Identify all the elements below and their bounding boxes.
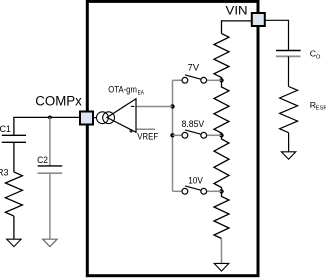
divider resistor 4: [214, 191, 229, 238]
IC boundary: [87, 1, 258, 275]
wire VREF stub: [137, 128, 156, 130]
svg-text:ESR: ESR: [316, 106, 326, 112]
wire switch 7V to tap: [207, 79, 222, 81]
pin VIN: [252, 13, 265, 26]
op-amp plus sign: [129, 130, 133, 132]
wire bus to switch 8.85V: [173, 134, 183, 136]
wire bus to switch 7V: [173, 79, 183, 81]
node tap 7V: [219, 78, 223, 82]
svg-text:8.85V: 8.85V: [182, 119, 205, 129]
svg-text:O: O: [316, 54, 321, 60]
wire inverting input to bus: [137, 106, 173, 108]
ground divider: [214, 263, 229, 271]
divider resistor 1: [214, 34, 229, 81]
wire CO to RESR: [288, 56, 290, 86]
node bus to switch 8.85V: [170, 133, 174, 137]
ground RESR: [281, 152, 295, 159]
capacitor CO: [276, 50, 301, 52]
divider resistor 2: [214, 80, 229, 135]
switch S3 10V: [182, 188, 188, 194]
wire feedback bus: [172, 80, 174, 191]
wire R3 to ground: [13, 216, 15, 239]
capacitor C1: [2, 134, 26, 136]
wire switch 8.85V to tap: [207, 134, 222, 136]
svg-text:C2: C2: [37, 155, 48, 165]
svg-text:R3: R3: [0, 168, 9, 178]
wire bus to switch 10V: [173, 190, 183, 192]
OTA output current-source circle 2: [103, 112, 115, 124]
switch S2 8.85V: [182, 132, 188, 138]
wire C1 to R3: [13, 142, 15, 172]
ground R3: [7, 239, 21, 246]
svg-text:VREF: VREF: [137, 131, 158, 141]
switch S1 7V: [182, 77, 188, 83]
svg-text:EA: EA: [138, 91, 144, 97]
node tap 8.85V: [219, 133, 223, 137]
OTA output current-source circle 1: [97, 112, 109, 124]
svg-text:COMPx: COMPx: [35, 94, 82, 109]
node tap 10V: [219, 189, 223, 193]
wire RESR to ground: [288, 133, 290, 152]
node bus to inverting input: [170, 104, 174, 108]
wire VIN pin to CO: [265, 20, 289, 50]
wire switch 10V to tap: [207, 190, 222, 192]
wire COMPx pin to OTA output: [93, 117, 97, 119]
ground C2: [43, 239, 57, 246]
svg-text:C1: C1: [0, 124, 11, 134]
svg-text:10V: 10V: [188, 175, 203, 185]
pin COMPx: [80, 112, 93, 125]
resistor R3: [5, 172, 22, 216]
wire VIN pin to divider top: [222, 21, 252, 34]
op-amp minus sign: [131, 105, 135, 107]
divider resistor 3: [214, 135, 229, 191]
svg-text:7V: 7V: [188, 62, 199, 72]
wire divider bottom to ground: [221, 239, 223, 264]
svg-text:VIN: VIN: [226, 3, 248, 17]
capacitor C2: [38, 165, 63, 167]
svg-text:OTA-gm: OTA-gm: [108, 84, 137, 94]
resistor RESR: [280, 87, 298, 133]
node COMPx C2 junction: [48, 116, 52, 120]
wire C2 to ground: [49, 173, 51, 239]
wire COMPx pin to C1: [14, 117, 80, 135]
wire junction to C2: [49, 117, 51, 165]
op-amp OTA-gmEA triangle: [107, 99, 136, 133]
